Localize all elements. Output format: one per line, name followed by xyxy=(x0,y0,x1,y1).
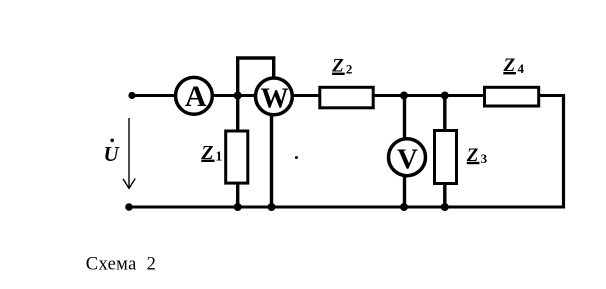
label Z1 xyxy=(200,142,222,165)
wire Z1 top lead xyxy=(236,96,239,132)
svg-text:Схема 2: Схема 2 xyxy=(86,255,156,275)
node N2 xyxy=(400,92,408,100)
label Z4 xyxy=(503,55,525,76)
wire Z3 top lead xyxy=(443,96,446,132)
wire right vertical xyxy=(562,94,565,209)
wire W bottom lead xyxy=(270,114,273,207)
wire wattmeter voltage-coil loop xyxy=(238,58,274,96)
wire bottom rail xyxy=(129,206,564,209)
wire Z1 bottom lead xyxy=(236,183,239,207)
wire V top lead xyxy=(403,96,406,141)
voltmeter V xyxy=(389,139,426,176)
terminal node top-left xyxy=(128,92,135,99)
resistor Z3 xyxy=(435,131,457,184)
wattmeter W xyxy=(256,78,293,115)
svg-text:2: 2 xyxy=(346,62,353,77)
svg-text:4: 4 xyxy=(518,61,525,76)
wire V bottom lead xyxy=(403,174,406,207)
node V-bottom junction xyxy=(400,203,408,211)
resistor Z4 xyxy=(485,87,539,106)
node Z3-bottom junction xyxy=(441,203,449,211)
terminal node bottom-left xyxy=(125,203,133,211)
node N3 xyxy=(441,92,449,100)
label Z2 xyxy=(331,56,352,77)
svg-text:A: A xyxy=(185,80,207,113)
wire Z3 bottom lead xyxy=(443,184,446,208)
node Z1-bottom junction xyxy=(234,203,242,211)
label Z3 xyxy=(466,145,488,166)
svg-text:V: V xyxy=(397,143,418,175)
wire top rail xyxy=(132,94,564,97)
svg-text:3: 3 xyxy=(481,151,488,166)
svg-text:1: 1 xyxy=(215,150,222,165)
ammeter A xyxy=(176,77,213,114)
node N1 xyxy=(234,92,242,100)
arrow U direction xyxy=(123,118,135,189)
node W-bottom junction xyxy=(268,203,276,211)
svg-text:W: W xyxy=(261,83,289,114)
resistor Z2 xyxy=(320,87,373,108)
svg-text:U: U xyxy=(104,142,121,166)
resistor Z1 xyxy=(226,131,248,183)
label U xyxy=(104,139,121,166)
stray ink dot xyxy=(295,156,298,159)
